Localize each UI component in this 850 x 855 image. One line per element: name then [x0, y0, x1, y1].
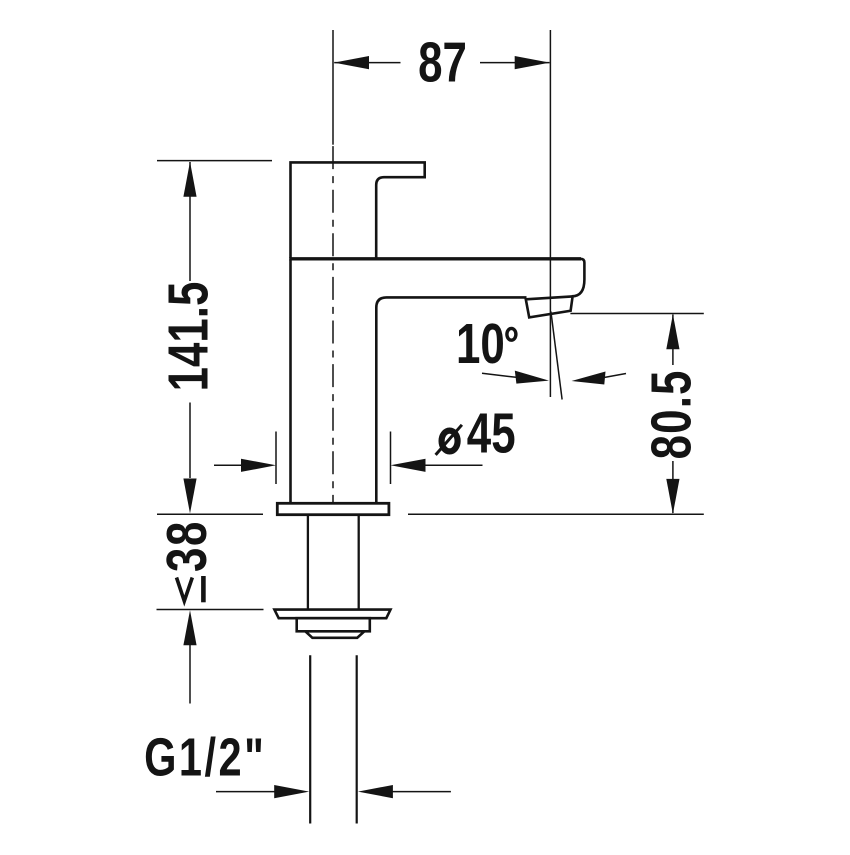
body top parting line (thick)	[289, 257, 581, 260]
dimension 141.5: dimension line with arrows	[189, 162, 191, 478]
spout underside and left column right edge	[376, 297, 526, 503]
dimension 10deg: right arrow	[604, 374, 626, 378]
locknut	[297, 618, 370, 631]
dimension o45: left arrow	[214, 464, 244, 466]
base level extension line (left segment)	[157, 513, 263, 515]
svg-text:141.5: 141.5	[156, 282, 220, 392]
dimension o45: extension lines	[276, 432, 391, 485]
centerline (faucet axis, dash-dot)	[332, 30, 334, 514]
dimension o45: right arrow	[424, 464, 483, 466]
dimension 10deg: left arrow	[482, 373, 516, 377]
dimension <=38: bottom extension line	[157, 609, 264, 611]
svg-text:87: 87	[418, 30, 467, 94]
svg-text:10: 10	[456, 311, 505, 375]
threaded shank	[308, 515, 359, 610]
dimension 141.5: top extension line	[157, 160, 272, 162]
supply pipe	[310, 655, 357, 823]
svg-text:80.5: 80.5	[639, 369, 703, 459]
dimension 87: dimension line with arrows	[334, 62, 549, 64]
dimension 87: extension line right (vertical reference)	[549, 30, 551, 397]
base plate (escutcheon)	[277, 503, 389, 514]
dimension 10deg: slanted reference line	[551, 312, 562, 400]
washer	[274, 610, 390, 619]
nut bottom collar	[305, 631, 364, 638]
dimension o45: value label	[436, 425, 462, 455]
svg-text:G1/2": G1/2"	[144, 727, 266, 788]
svg-text:38: 38	[154, 520, 218, 572]
dimension <=38: lower arrow pointing up with tail	[183, 610, 196, 645]
dimension G1/2: left arrow	[216, 791, 276, 793]
dimension G1/2: right arrow	[391, 791, 451, 793]
base level extension line (right segment)	[408, 513, 704, 515]
svg-text:45: 45	[467, 401, 516, 465]
faucet handle (lever) outline	[291, 162, 425, 258]
body left edge	[289, 260, 292, 504]
dimension 80.5: top extension line (outlet level)	[570, 313, 703, 315]
spout right end profile	[572, 259, 585, 297]
dimension 80.5: dimension line with arrows	[672, 315, 674, 514]
aerator (10-degree tilted outlet)	[526, 296, 573, 317]
